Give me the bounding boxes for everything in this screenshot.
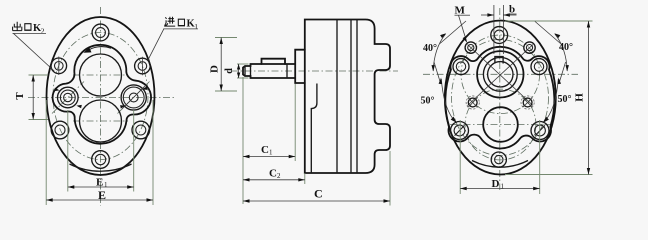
svg-text:C: C [269,167,277,179]
left side bolt [451,122,469,140]
upper-left M hole [465,42,476,53]
dimension d [224,64,249,78]
svg-text:50°: 50° [558,94,572,105]
right 50 deg dimension [543,62,572,123]
dimension C2 [243,167,305,184]
label jinkou K1 [148,17,199,61]
label chukou K2 [13,22,55,71]
left ring arrows [54,88,82,109]
svg-text:d: d [224,68,235,74]
lower gear bore [483,107,518,142]
lower gear bore [80,100,122,142]
vertical centerline [100,7,102,206]
right port circle [531,59,547,75]
dimension E [46,100,153,205]
body joint line 3 [356,20,358,174]
svg-text:T: T [14,92,26,100]
inlet port hole K1 [135,57,151,75]
lower-right bolt [132,121,150,139]
bottom inner chamfer arc [472,161,528,168]
upper gear bore [80,54,122,96]
upper gear centerline [73,74,128,76]
left 50 deg dimension [421,62,457,123]
lower bore horizontal centerline [450,124,552,126]
bearing bore circle [483,57,517,91]
svg-text:E: E [96,177,103,189]
lower bolt pitch circle [465,89,536,160]
keyway slot [495,57,503,64]
LEFT-VIEW [13,7,199,206]
dimension T [14,75,48,120]
svg-text:E: E [98,188,106,202]
svg-text:C: C [261,144,269,156]
front pilot boss [295,50,305,83]
side bolts pitch oval [452,40,549,156]
dimension D [209,38,238,92]
body outline [305,20,390,174]
shaft [243,64,295,78]
svg-text:40°: 40° [559,42,573,53]
dimension D1 [460,120,540,194]
shaft centerline [231,70,398,72]
svg-text:1: 1 [269,149,273,157]
boss horizontal centerline [423,73,578,75]
housing peanut outline [445,47,554,149]
bottom bolt [92,151,110,169]
RIGHT-VIEW [421,4,593,195]
upper-right hole [524,42,535,53]
svg-text:40°: 40° [423,43,437,54]
left ring diagonal centerline [52,82,84,114]
cover joint line [336,20,338,174]
rotation arrow [84,47,112,53]
right side bolt [531,122,549,140]
svg-text:M: M [455,5,466,17]
bottom inner chamfer arc [70,164,132,171]
upper bolt pitch circle [461,35,540,114]
svg-text:D: D [209,65,221,73]
svg-text:2: 2 [277,172,281,180]
left shaft rings [58,87,79,108]
left 40 deg dimension [423,21,466,72]
mid-left threaded hole [466,96,479,109]
right ring diagonal centerline [118,82,150,114]
pump body outer oval [47,17,155,175]
top bolt [92,24,109,41]
dimension C1 [243,77,295,204]
right ring arrows [120,87,147,109]
front step [311,84,317,174]
lower-left bolt [51,121,69,139]
dimension H [505,21,593,175]
outlet port hole K2 [51,57,67,76]
bottom bolt [491,152,506,167]
top bolt [491,27,508,44]
left port circle [453,59,469,75]
bolt pitch oval [53,33,148,160]
mid-right threaded hole [521,96,534,109]
housing peanut outline [53,45,151,144]
boss spoke lines [468,45,534,106]
dimension b [481,4,517,55]
dimension E1 [68,110,134,192]
svg-text:1: 1 [501,183,505,191]
vertical centerline [499,8,501,190]
lower gear centerline [73,120,128,122]
dimension C [243,151,390,206]
horizontal centerline [28,97,174,99]
svg-text:2: 2 [41,26,45,35]
shaft key [262,59,286,64]
svg-text:D: D [492,178,500,190]
rear cover outer oval [445,21,556,175]
right shaft rings [121,85,146,110]
body joint line 2 [350,20,352,174]
MIDDLE-VIEW [209,20,399,206]
shaft hole circle [488,62,513,87]
svg-text:1: 1 [194,22,198,31]
svg-text:C: C [314,187,323,201]
right 40 deg dimension [535,21,574,72]
svg-text:50°: 50° [421,96,435,107]
svg-text:H: H [574,93,586,102]
label M [455,5,471,43]
central boss circle [477,51,523,97]
